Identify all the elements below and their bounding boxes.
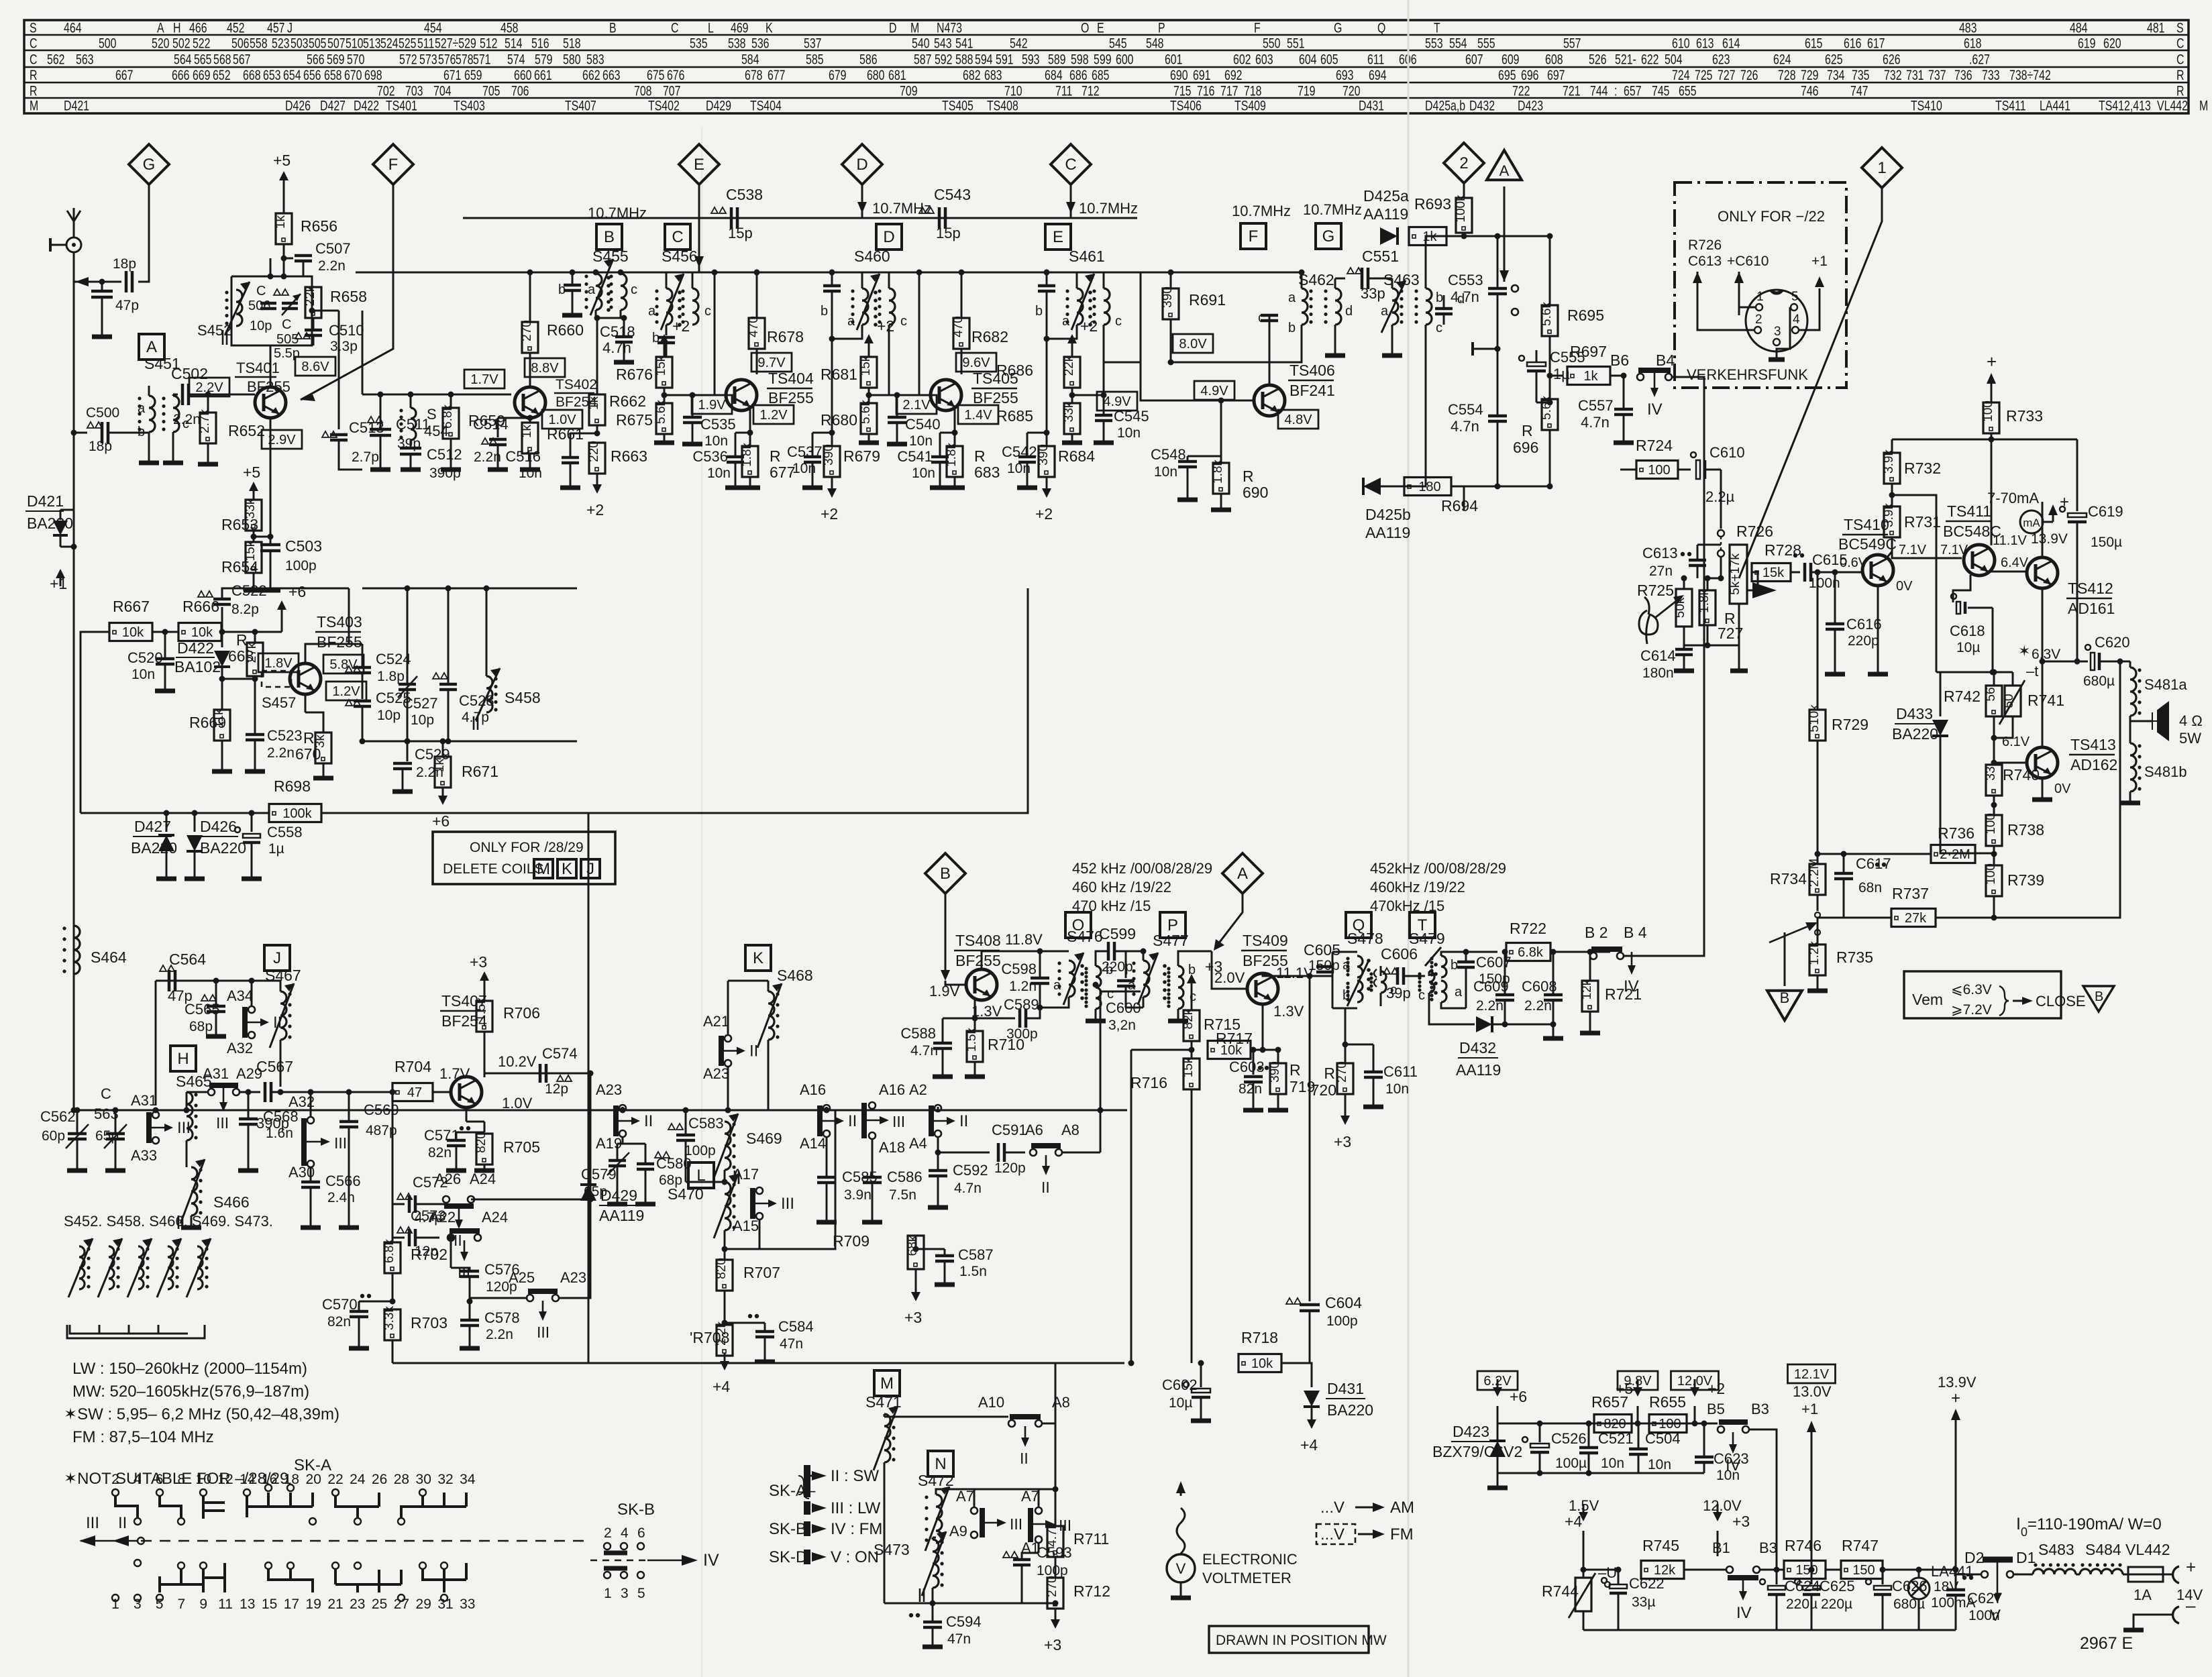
resistor R742 56 xyxy=(1991,669,1997,675)
svg-text:R679: R679 xyxy=(843,447,880,465)
capacitor C573 12p xyxy=(392,1204,405,1238)
transistor TS412 AD161 xyxy=(2027,557,2058,588)
svg-text:452: 452 xyxy=(227,20,245,36)
capacitor C603 82n xyxy=(1251,1047,1257,1053)
svg-text:738÷742: 738÷742 xyxy=(2009,68,2051,84)
emitter bypass cap xyxy=(940,432,955,434)
TS412 emitter down xyxy=(2042,588,2044,661)
svg-text:22: 22 xyxy=(327,1472,343,1487)
diode D431 BA220 xyxy=(1281,1363,1312,1387)
svg-text:100µ: 100µ xyxy=(1555,1456,1587,1471)
svg-text:692: 692 xyxy=(1224,68,1243,84)
svg-text:IV: IV xyxy=(1647,400,1663,419)
svg-text:540: 540 xyxy=(912,36,930,52)
svg-text:614: 614 xyxy=(1722,36,1740,52)
svg-text:BA220: BA220 xyxy=(1892,725,1938,743)
voltage 1.8V xyxy=(258,653,299,672)
svg-text:33k: 33k xyxy=(1062,401,1076,422)
resistor R716 15k xyxy=(1181,1057,1200,1089)
wire to TS410 base xyxy=(1832,570,1838,576)
svg-text:6: 6 xyxy=(637,1525,645,1541)
capacitor C520 10n xyxy=(164,632,166,659)
svg-text:SK-B: SK-B xyxy=(769,1520,806,1538)
svg-text:589: 589 xyxy=(1048,52,1066,68)
svg-text:594: 594 xyxy=(975,52,993,68)
svg-text:557: 557 xyxy=(1563,36,1581,52)
drawn in position box xyxy=(1209,1626,1369,1653)
svg-text:554: 554 xyxy=(1449,36,1467,52)
capacitor C567 390p xyxy=(265,1082,271,1102)
svg-text:150: 150 xyxy=(1795,1563,1818,1578)
svg-text:180n: 180n xyxy=(1642,665,1674,681)
svg-text:S479: S479 xyxy=(1409,930,1445,947)
svg-text:R734: R734 xyxy=(1770,870,1807,887)
svg-text:S460: S460 xyxy=(854,248,890,265)
svg-text:8.8V: 8.8V xyxy=(531,361,559,376)
resistor R656 1k xyxy=(273,152,291,188)
svg-text:R: R xyxy=(2176,68,2184,84)
base vertical wire xyxy=(715,272,727,395)
svg-text:BA220: BA220 xyxy=(1327,1401,1373,1419)
svg-text:652: 652 xyxy=(213,68,231,84)
resistor R706 1.5k xyxy=(470,953,489,989)
svg-text:747: 747 xyxy=(1850,83,1868,99)
svg-text:⩾7.2V: ⩾7.2V xyxy=(1951,1002,1992,1018)
svg-text:2.2M: 2.2M xyxy=(1807,859,1822,887)
svg-text:C584: C584 xyxy=(778,1318,814,1335)
svg-text:A33: A33 xyxy=(131,1147,157,1164)
svg-text:S468: S468 xyxy=(777,967,813,984)
resistor R712 270 xyxy=(1045,1576,1063,1609)
svg-text:676: 676 xyxy=(667,68,685,84)
svg-text:481: 481 xyxy=(2147,20,2165,36)
svg-text:1: 1 xyxy=(1877,159,1886,177)
svg-text:C611: C611 xyxy=(1383,1063,1418,1080)
svg-text:BF255: BF255 xyxy=(768,389,814,407)
svg-text:J: J xyxy=(273,949,281,967)
resistor R711 4.7k xyxy=(1055,1363,1057,1526)
svg-text:551: 551 xyxy=(1287,36,1305,52)
capacitor C527 10p xyxy=(407,588,409,684)
svg-text:607: 607 xyxy=(1465,52,1483,68)
SK-A top contact row xyxy=(112,1489,119,1496)
svg-text:484: 484 xyxy=(2070,20,2088,36)
svg-text:C522: C522 xyxy=(231,582,267,599)
svg-text:C613: C613 xyxy=(1642,545,1678,561)
base vertical wire xyxy=(919,272,932,395)
svg-text:D429: D429 xyxy=(706,98,731,114)
capacitor C591 120p xyxy=(938,1152,990,1154)
svg-text:R722: R722 xyxy=(1510,920,1546,937)
svg-text:601: 601 xyxy=(1165,52,1183,68)
svg-text:TS407: TS407 xyxy=(565,98,596,114)
S460 secondary down wire xyxy=(888,325,890,395)
svg-text:516: 516 xyxy=(531,36,549,52)
svg-text:10.7MHz: 10.7MHz xyxy=(872,200,931,217)
svg-text:B3: B3 xyxy=(1759,1539,1777,1556)
svg-text:33µ: 33µ xyxy=(1632,1594,1655,1610)
svg-text:R726: R726 xyxy=(1736,523,1773,540)
svg-text:+1: +1 xyxy=(1801,1401,1818,1417)
resistor R727 1.8k xyxy=(1697,589,1716,625)
wire from AM rail to TS408 base xyxy=(1100,991,1141,1110)
svg-text:724: 724 xyxy=(1672,68,1690,84)
bias divider R681 R680 xyxy=(864,317,894,351)
svg-text:S: S xyxy=(2176,20,2184,36)
svg-text:R652: R652 xyxy=(228,422,265,439)
svg-text:✶SW : 5,95– 6,2 MHz (50,42–48: ✶SW : 5,95– 6,2 MHz (50,42–48,39m) xyxy=(64,1405,339,1423)
capacitor S463 d xyxy=(1435,309,1453,314)
svg-text:CLOSE: CLOSE xyxy=(2036,993,2086,1010)
capacitor C557 4.7n xyxy=(1621,373,1627,379)
AM input rail xyxy=(74,1110,1127,1112)
capacitor C572 4.7p xyxy=(397,1193,412,1199)
svg-text:469: 469 xyxy=(731,20,749,36)
electronic voltmeter symbol xyxy=(1177,1508,1185,1554)
svg-text:TS403: TS403 xyxy=(317,613,362,631)
svg-text:A31: A31 xyxy=(131,1092,157,1109)
Verkehrsfunk wiring xyxy=(1697,315,1754,330)
svg-text:TS405: TS405 xyxy=(942,98,973,114)
svg-text:626: 626 xyxy=(1883,52,1901,68)
resistor R702 6.8k xyxy=(392,1238,394,1242)
wire TS410 collector to TS411 base xyxy=(1892,551,1962,558)
svg-text:718: 718 xyxy=(1244,83,1262,99)
svg-text:678: 678 xyxy=(745,68,763,84)
svg-text:R703: R703 xyxy=(411,1314,447,1332)
svg-text:II : SW: II : SW xyxy=(831,1467,879,1485)
svg-text:570: 570 xyxy=(347,52,365,68)
collector to S462 xyxy=(1269,362,1271,385)
svg-text:R: R xyxy=(30,68,37,84)
svg-text:527÷529: 527÷529 xyxy=(435,36,476,52)
svg-text:C: C xyxy=(282,317,291,332)
svg-text:+2: +2 xyxy=(586,501,604,519)
resistor R724 100 xyxy=(1636,461,1678,479)
svg-text:100: 100 xyxy=(1984,813,1998,834)
svg-text:R: R xyxy=(30,83,37,99)
svg-text:722: 722 xyxy=(1512,83,1530,99)
svg-text:C535: C535 xyxy=(700,416,736,433)
IF bus rail top xyxy=(463,217,1137,219)
transistor TS406 BF241 xyxy=(1254,385,1285,416)
svg-text:B: B xyxy=(2095,989,2103,1004)
svg-text:820: 820 xyxy=(474,1132,488,1153)
TS405 collector rail xyxy=(959,270,965,276)
svg-text:729: 729 xyxy=(1801,68,1819,84)
svg-text:715: 715 xyxy=(1173,83,1192,99)
svg-text:D: D xyxy=(889,20,896,36)
svg-text:452kHz /00/08/28/29: 452kHz /00/08/28/29 xyxy=(1370,860,1506,877)
svg-text:R660: R660 xyxy=(547,321,584,339)
svg-text:C503: C503 xyxy=(285,537,322,555)
svg-text:R667: R667 xyxy=(113,598,150,615)
svg-text:1.9V: 1.9V xyxy=(698,398,726,413)
svg-text:C603: C603 xyxy=(1229,1059,1265,1075)
svg-text:AA119: AA119 xyxy=(599,1207,644,1224)
S455 secondary node xyxy=(595,310,597,318)
svg-text:677: 677 xyxy=(768,68,786,84)
volume pot bottom xyxy=(1707,604,1739,645)
svg-text:585: 585 xyxy=(806,52,824,68)
svg-text:b: b xyxy=(1288,321,1296,335)
transformer S456 coils xyxy=(666,288,672,325)
svg-text:SK-A–: SK-A– xyxy=(769,1482,816,1500)
letter box G2 xyxy=(1316,223,1341,249)
svg-text:526: 526 xyxy=(1589,52,1607,68)
svg-text:c: c xyxy=(1418,988,1425,1003)
resistor R661 1k xyxy=(529,418,531,423)
letter box C xyxy=(665,224,690,250)
resistor R739 100 xyxy=(1984,863,2002,896)
svg-text:690: 690 xyxy=(1170,68,1188,84)
connector diamond D xyxy=(842,144,882,184)
svg-text:470: 470 xyxy=(951,316,965,337)
svg-text:653: 653 xyxy=(263,68,281,84)
svg-text:536: 536 xyxy=(751,36,770,52)
svg-text:A25: A25 xyxy=(509,1269,535,1286)
svg-text:B 4: B 4 xyxy=(1624,924,1647,941)
svg-text:R663: R663 xyxy=(611,447,647,465)
volume pot R726 5k+17k xyxy=(1718,576,1724,582)
svg-text:+C610: +C610 xyxy=(1727,254,1769,269)
svg-text:686: 686 xyxy=(1069,68,1088,84)
svg-text:M: M xyxy=(30,98,38,114)
capacitor C602 10u xyxy=(1200,1363,1202,1387)
svg-text:C618: C618 xyxy=(1950,623,1985,639)
svg-text:8.6V: 8.6V xyxy=(301,360,329,374)
svg-text:+5: +5 xyxy=(1616,1380,1633,1397)
resistor R731 3.9k xyxy=(1882,503,1900,537)
svg-text:III: III xyxy=(537,1323,549,1341)
svg-text:1µ: 1µ xyxy=(268,841,284,857)
svg-text:22k: 22k xyxy=(1062,355,1076,376)
svg-text:28: 28 xyxy=(394,1472,409,1487)
transistor TS401 BF255 xyxy=(255,387,286,418)
svg-text:+2: +2 xyxy=(821,505,838,523)
svg-text:K: K xyxy=(766,20,773,36)
svg-text:23: 23 xyxy=(350,1597,365,1612)
capacitor C609 2.2n xyxy=(1504,952,1506,995)
svg-text:V : ON: V : ON xyxy=(831,1548,879,1566)
svg-text:D422: D422 xyxy=(354,98,379,114)
svg-text:566: 566 xyxy=(307,52,325,68)
transistor TS407 BF254 xyxy=(451,1077,482,1107)
svg-text:C586: C586 xyxy=(887,1169,923,1185)
pot wiper arrow into R734 xyxy=(1769,926,1809,942)
svg-text:591: 591 xyxy=(996,52,1014,68)
capacitor C606 39p xyxy=(1383,968,1398,974)
svg-text:13.0V: 13.0V xyxy=(1793,1383,1832,1400)
svg-text:6: 6 xyxy=(156,1472,164,1487)
svg-text:9: 9 xyxy=(199,1597,207,1612)
resistor R668 27k xyxy=(222,678,255,680)
svg-text:+2: +2 xyxy=(1080,317,1098,335)
svg-text:33p: 33p xyxy=(1361,285,1385,302)
svg-text:2.2n: 2.2n xyxy=(486,1327,513,1342)
svg-text:F: F xyxy=(1249,227,1259,246)
voltage 9.7V xyxy=(751,353,792,372)
svg-text:22k: 22k xyxy=(303,285,317,306)
svg-text:R669: R669 xyxy=(189,714,226,731)
svg-text:29: 29 xyxy=(416,1597,431,1612)
trimmer C505 5.5p xyxy=(282,303,298,309)
svg-text:13.9V: 13.9V xyxy=(2031,531,2068,547)
svg-text:3: 3 xyxy=(621,1586,629,1601)
svg-text:A31: A31 xyxy=(203,1065,229,1082)
TS409 collector to S478 xyxy=(1263,973,1310,976)
svg-text:G: G xyxy=(1322,227,1335,246)
svg-text:a: a xyxy=(1062,314,1070,329)
svg-text:A34: A34 xyxy=(227,987,253,1004)
resistor R732 3.9k xyxy=(1882,449,1900,484)
svg-text:+2: +2 xyxy=(1035,505,1053,523)
svg-text:720: 720 xyxy=(1342,83,1361,99)
svg-text:+4: +4 xyxy=(1565,1513,1582,1530)
voltage 8.0V xyxy=(1173,334,1213,353)
resistor R717 10k xyxy=(1208,1041,1251,1059)
svg-text:C589: C589 xyxy=(1004,996,1039,1013)
wire R667 left down to R698 xyxy=(81,632,109,813)
emitter resistor R683 1.8k xyxy=(954,407,956,433)
svg-text:C: C xyxy=(30,52,37,68)
wire B down to TS408 base xyxy=(945,894,947,973)
svg-text:B: B xyxy=(604,228,615,246)
svg-text:TS409: TS409 xyxy=(1234,98,1266,114)
svg-text:FM : 87,5–104 MHz: FM : 87,5–104 MHz xyxy=(72,1428,214,1446)
svg-text:464: 464 xyxy=(64,20,82,36)
header row text xyxy=(30,20,2208,114)
resistor R662 1k xyxy=(596,318,598,394)
svg-text:4.9V: 4.9V xyxy=(1200,384,1228,398)
oscillator tank frame xyxy=(231,276,312,345)
capacitor C551 33p xyxy=(1335,278,1345,280)
svg-text:1k: 1k xyxy=(1583,369,1598,384)
svg-text:622: 622 xyxy=(1641,52,1659,68)
wire speaker return xyxy=(1994,661,2120,918)
svg-text:744: 744 xyxy=(1590,83,1608,99)
svg-text:J: J xyxy=(287,20,293,36)
svg-text:150: 150 xyxy=(1852,1563,1875,1578)
svg-text:R: R xyxy=(2176,83,2184,99)
battery plus terminal xyxy=(2163,1574,2172,1576)
capacitor C585 3.9n xyxy=(826,1137,828,1177)
letter box F2 xyxy=(1241,223,1266,249)
svg-text:460kHz /19/22: 460kHz /19/22 xyxy=(1370,879,1465,896)
svg-text:180: 180 xyxy=(1418,480,1440,494)
decoupling cap C537 10n xyxy=(829,430,835,436)
svg-text:IV : FM: IV : FM xyxy=(831,1520,882,1538)
svg-text:c: c xyxy=(631,282,637,297)
capacitor C513 2.7p xyxy=(322,431,337,437)
svg-text:563: 563 xyxy=(76,52,94,68)
Vem close box xyxy=(1904,971,2061,1018)
svg-text:10n: 10n xyxy=(1601,1456,1624,1471)
svg-text:+: + xyxy=(1951,1389,1960,1407)
capacitor C522 8.2p xyxy=(221,607,223,632)
svg-text:a: a xyxy=(847,314,855,329)
svg-text:TS402: TS402 xyxy=(648,98,680,114)
svg-text:VL442: VL442 xyxy=(2125,1541,2170,1558)
letter box T xyxy=(1410,912,1435,938)
svg-text:5k+17k: 5k+17k xyxy=(1728,553,1742,595)
diode D421 BA220 xyxy=(73,517,75,557)
resistor R722 6.8k xyxy=(1502,949,1508,955)
svg-text:8: 8 xyxy=(178,1472,186,1487)
svg-text:100k: 100k xyxy=(1454,195,1468,223)
svg-text:1.7V: 1.7V xyxy=(470,372,498,387)
svg-text:TS412,413: TS412,413 xyxy=(2099,98,2151,114)
svg-text:568: 568 xyxy=(213,52,231,68)
svg-text:706: 706 xyxy=(511,83,529,99)
svg-text:C588: C588 xyxy=(900,1025,936,1042)
svg-text:R671: R671 xyxy=(462,763,498,780)
svg-text:+3: +3 xyxy=(470,953,487,971)
decoupling cap C542 10n xyxy=(1044,430,1050,436)
resistor R697 1k xyxy=(1550,375,1563,377)
svg-text:550: 550 xyxy=(1263,36,1281,52)
voltage 1.9V xyxy=(692,395,732,414)
svg-text:17: 17 xyxy=(284,1597,299,1612)
svg-text:+6: +6 xyxy=(288,583,306,600)
capacitor C619 150u xyxy=(2076,439,2078,511)
voltage 12.0V supply xyxy=(1692,1421,1698,1427)
svg-text:390: 390 xyxy=(822,444,836,466)
svg-text:736: 736 xyxy=(1954,68,1972,84)
capacitor C611 10n xyxy=(1345,1044,1373,1046)
resistor R667 10k xyxy=(109,623,152,641)
svg-text:1.2k: 1.2k xyxy=(1807,941,1822,965)
emitter resistor R677 1.8k xyxy=(749,407,751,433)
svg-text:⩽6.3V: ⩽6.3V xyxy=(1951,982,1992,997)
letter box O xyxy=(1065,912,1091,938)
svg-text:AA119: AA119 xyxy=(1365,524,1410,541)
TS407 emitter xyxy=(466,1107,468,1122)
svg-text:1k: 1k xyxy=(433,758,447,772)
svg-text:1.5k: 1.5k xyxy=(474,997,488,1022)
svg-text:II: II xyxy=(1041,1179,1050,1196)
svg-text:C564: C564 xyxy=(169,951,206,968)
svg-text:LW : 150–260kHz (2000–1154m): LW : 150–260kHz (2000–1154m) xyxy=(72,1360,307,1378)
switch contact AFC xyxy=(1512,285,1518,292)
svg-text:669: 669 xyxy=(193,68,211,84)
svg-text:598: 598 xyxy=(1071,52,1089,68)
svg-text:500: 500 xyxy=(99,36,117,52)
svg-text:C570: C570 xyxy=(322,1296,358,1313)
svg-text:A: A xyxy=(157,20,164,36)
svg-text:C554: C554 xyxy=(1448,401,1483,418)
svg-text:R: R xyxy=(303,729,315,747)
svg-text:S473: S473 xyxy=(874,1541,910,1558)
svg-text:V: V xyxy=(1176,1560,1186,1577)
svg-text:2: 2 xyxy=(1459,154,1468,172)
svg-text:A22: A22 xyxy=(429,1209,456,1226)
capacitor C543 15p xyxy=(919,207,934,213)
svg-text:660: 660 xyxy=(514,68,532,84)
svg-text:25: 25 xyxy=(372,1597,387,1612)
svg-text:C614: C614 xyxy=(1640,647,1676,664)
svg-text:b: b xyxy=(1436,290,1443,305)
svg-text:H: H xyxy=(177,1050,189,1068)
svg-text:D429: D429 xyxy=(600,1187,637,1204)
svg-text:TS401: TS401 xyxy=(386,98,417,114)
svg-text:AA119: AA119 xyxy=(1363,205,1408,223)
svg-text:B 2: B 2 xyxy=(1585,924,1608,941)
svg-text:BA220: BA220 xyxy=(200,839,246,857)
svg-text:R: R xyxy=(1289,1061,1301,1079)
capacitor C618 10u xyxy=(1953,575,1970,602)
svg-text:C602: C602 xyxy=(1162,1376,1198,1393)
